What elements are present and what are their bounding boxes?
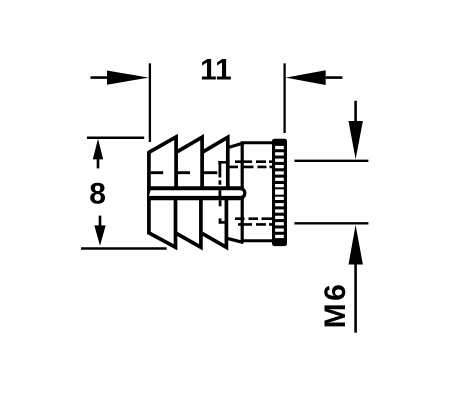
knurl stripes xyxy=(275,146,284,238)
svg-text:8: 8 xyxy=(89,177,106,210)
hidden line: bore bottom step bottom horizontal xyxy=(219,221,227,224)
dimension M6 up arrowhead xyxy=(349,225,363,265)
collar left edge xyxy=(241,141,244,242)
hidden line: internal thread major diameter bottom xyxy=(238,223,272,226)
thread fin 3 bottom xyxy=(202,198,226,247)
dimension 11 right extension line xyxy=(283,63,285,133)
hidden line: internal thread minor diameter top xyxy=(230,166,273,169)
collar bottom edge xyxy=(241,239,272,242)
dimension 8 down arrowhead xyxy=(94,225,105,246)
thread root line segment B (top) xyxy=(178,171,190,174)
hidden line: bore bottom vertical (below slot) xyxy=(219,200,222,223)
hidden line: bore bottom vertical (inside slot) xyxy=(218,190,221,196)
dimension M6 down arrow shaft xyxy=(354,101,357,122)
dimension 11 right arrowhead xyxy=(286,70,326,85)
hidden line: internal thread major diameter top xyxy=(235,160,272,163)
thread fin 4 bottom diagonal to collar xyxy=(227,238,244,242)
dimension 11 left arrow tail xyxy=(91,76,110,79)
thread root line segment A (top) xyxy=(151,171,164,174)
svg-text:M6: M6 xyxy=(319,282,352,329)
dimension 11 left arrowhead xyxy=(107,71,149,85)
insert body left face xyxy=(147,151,151,234)
dimension 11 right arrow tail xyxy=(326,76,343,79)
thread fin 4 top diagonal to collar xyxy=(228,143,244,148)
dimension M6 top extension line xyxy=(294,160,368,162)
hidden line: internal thread minor diameter bottom xyxy=(235,217,272,220)
thread fin 1 top (diagonal + vertical edge) xyxy=(149,137,176,189)
screwdriver slot inner white xyxy=(149,190,243,196)
hidden line: bore bottom vertical (above slot) xyxy=(218,162,221,185)
thread fin 3 top xyxy=(202,137,228,188)
dimension 8 up arrow shaft xyxy=(97,158,100,168)
dimension M6 up arrow shaft xyxy=(354,264,357,333)
thread fin 1 bottom xyxy=(149,198,176,247)
dimension 8 bottom extension line xyxy=(81,247,167,250)
collar top edge xyxy=(241,141,272,144)
knurled flange band xyxy=(272,139,287,246)
thread root line segment C (top) xyxy=(204,171,217,174)
dimension M6 bottom extension line xyxy=(294,222,368,224)
dimension M6 down arrowhead xyxy=(349,121,363,159)
thread fin 2 top xyxy=(176,137,202,188)
dimension 11 left extension line xyxy=(149,63,151,142)
svg-text:11: 11 xyxy=(200,54,232,87)
dimension 8 down arrow shaft xyxy=(99,216,102,227)
screwdriver slot outer bar xyxy=(147,186,246,200)
hidden line: bore bottom step top horizontal xyxy=(218,161,226,164)
thread fin 2 bottom xyxy=(177,198,201,247)
dimension 8 top extension line xyxy=(87,136,144,139)
dimension 8 up arrowhead xyxy=(93,139,103,160)
